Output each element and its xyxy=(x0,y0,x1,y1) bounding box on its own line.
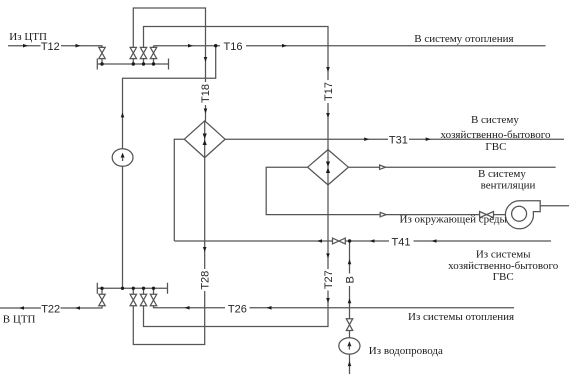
wire bottom valve stubs xyxy=(102,288,154,294)
wire T27 return from HX2 xyxy=(144,185,329,327)
svg-text:Т12: Т12 xyxy=(41,41,60,53)
svg-text:Т27: Т27 xyxy=(323,270,335,289)
open arrow left on ambient air line xyxy=(380,212,386,216)
heat exchanger HX1 diamond xyxy=(184,121,225,158)
svg-text:Т41: Т41 xyxy=(392,236,411,248)
svg-text:ГВС: ГВС xyxy=(485,141,506,153)
wire through HX1 xyxy=(204,121,206,158)
valve top manifold 2 xyxy=(130,47,136,58)
flow arrows up on B riser xyxy=(348,259,352,366)
svg-text:Т17: Т17 xyxy=(323,82,335,101)
valve T41 line bowtie xyxy=(333,238,346,244)
open arrow right on ventilation line xyxy=(380,165,386,169)
node T41 cold water junction xyxy=(348,239,351,242)
node T16 bypass junction xyxy=(214,44,217,47)
wire through HX2 xyxy=(327,150,329,185)
svg-text:В: В xyxy=(345,276,357,283)
svg-text:Т26: Т26 xyxy=(228,303,247,315)
flow arrow up on pump bypass line xyxy=(121,112,125,117)
svg-text:Из водопровода: Из водопровода xyxy=(369,345,443,357)
flow arrows left on T41 line xyxy=(317,239,437,243)
wire ventilation supply line xyxy=(348,166,555,168)
svg-text:вентиляции: вентиляции xyxy=(481,179,536,191)
pump P1 circulation xyxy=(112,149,133,167)
wire T26 from heating system return xyxy=(154,306,515,308)
pump P2 water supply xyxy=(339,338,360,354)
flow arrows right on T12 line xyxy=(23,44,81,48)
wire bypass from T16 junction to pump line xyxy=(123,46,216,289)
wire bottom header with end ticks xyxy=(97,283,167,294)
svg-text:Из системы: Из системы xyxy=(476,249,531,261)
wire ambient air line to HX2 xyxy=(266,167,505,214)
flow arrows right on T31 line xyxy=(364,137,431,141)
wire T31 to domestic hot water xyxy=(225,138,564,140)
wire top loop to T18 xyxy=(133,8,205,121)
wire T12 inlet from central heating xyxy=(8,46,102,48)
wire top header with end ticks xyxy=(97,59,168,70)
wire T41 line xyxy=(174,240,551,242)
wire T22 outlet to central heating xyxy=(0,306,102,308)
svg-text:В ЦТП: В ЦТП xyxy=(3,313,36,325)
flow arrows left on T22 line xyxy=(19,306,80,310)
valve bottom manifold 2 xyxy=(130,294,136,305)
flow arrows down on T27 riser xyxy=(326,253,330,303)
wire valve stubs to top header xyxy=(102,59,154,64)
svg-text:В систему отопления: В систему отопления xyxy=(414,33,513,45)
flow arrows down on T18 riser xyxy=(204,57,208,114)
flow arrows meeting inside HX2 xyxy=(326,162,330,174)
wire T16 heating supply line xyxy=(154,46,546,48)
wire B cold water riser xyxy=(349,241,351,374)
valve bottom manifold 4 xyxy=(150,294,156,305)
flow arrows meeting inside HX1 xyxy=(203,134,207,146)
wire T28 return from HX1 xyxy=(133,158,204,345)
flow arrows right on T16 line xyxy=(188,44,287,48)
svg-text:Из системы отопления: Из системы отопления xyxy=(408,311,514,323)
valve bottom manifold 3 xyxy=(140,294,146,305)
node top header junctions xyxy=(100,62,103,65)
node bottom header junctions xyxy=(100,287,103,290)
flow arrow down on T28 riser xyxy=(203,247,207,252)
valve top manifold 3 xyxy=(140,47,146,58)
fan housing xyxy=(505,201,540,229)
flow arrows down on T17 riser xyxy=(326,67,330,118)
valve ambient air line bowtie xyxy=(480,212,494,218)
svg-text:ГВС: ГВС xyxy=(493,271,514,283)
valve B riser xyxy=(346,319,352,331)
wire top loop to T17 xyxy=(144,27,329,150)
fan inner circle xyxy=(512,206,527,221)
svg-text:Т31: Т31 xyxy=(389,135,408,147)
svg-text:Т16: Т16 xyxy=(224,41,243,53)
valve top manifold 1 xyxy=(99,47,105,58)
svg-text:хозяйственно-бытового: хозяйственно-бытового xyxy=(440,129,551,141)
valve top manifold 4 xyxy=(150,47,156,58)
svg-text:Из окружающей среды: Из окружающей среды xyxy=(400,214,508,226)
svg-text:Т18: Т18 xyxy=(200,84,212,103)
flow arrows left on T26 line xyxy=(185,306,272,310)
svg-text:В систему: В систему xyxy=(478,168,526,180)
valve bottom manifold 1 xyxy=(99,294,105,305)
heat exchanger HX2 diamond xyxy=(308,150,349,185)
svg-text:В систему: В систему xyxy=(471,114,519,126)
flow arrow inside pump P1 xyxy=(121,153,125,158)
svg-text:Т28: Т28 xyxy=(200,271,212,290)
svg-text:Т22: Т22 xyxy=(41,303,60,315)
flow arrow inside pump P2 xyxy=(347,341,351,346)
wire HX1 cold side loop xyxy=(174,139,184,241)
wire fan outlet xyxy=(540,205,569,207)
